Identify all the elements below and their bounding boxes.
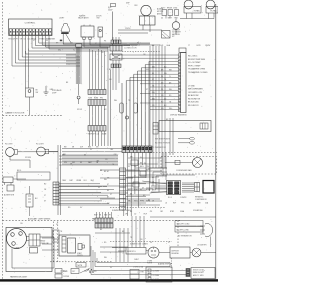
svg-text:LO SIDE HTR: LO SIDE HTR (197, 245, 207, 247)
svg-text:HY: HY (107, 171, 109, 173)
svg-text:HUF: HUF (144, 214, 147, 216)
svg-text:BK AUX SW: BK AUX SW (188, 94, 199, 97)
svg-text:CH: CH (134, 166, 136, 168)
svg-text:BK: BK (84, 154, 86, 156)
svg-text:YL: YL (169, 76, 171, 78)
svg-text:YL: YL (156, 184, 158, 186)
svg-text:VALVE ASSY: VALVE ASSY (78, 17, 90, 20)
svg-text:WR TEST POINTS: WR TEST POINTS (155, 138, 171, 140)
svg-text:RWL: RWL (88, 147, 91, 149)
svg-text:AUXILIARY LIGHT WIRING: AUXILIARY LIGHT WIRING (28, 217, 51, 220)
svg-text:LOW SIDE: LOW SIDE (172, 29, 180, 31)
svg-text:CU WIRE: CU WIRE (153, 271, 160, 273)
svg-text:1DVE: 1DVE (159, 45, 163, 47)
svg-text:BT: BT (107, 197, 109, 199)
svg-text:COMPRESSOR: COMPRESSOR (195, 199, 207, 201)
svg-text:DEFROST H: DEFROST H (127, 251, 136, 253)
svg-text:YN: YN (99, 215, 101, 217)
svg-text:WIRE RECEPT: WIRE RECEPT (193, 272, 204, 274)
svg-text:FZ THERMISTOR: FZ THERMISTOR (178, 236, 192, 238)
svg-text:GY +5V TEMP: GY +5V TEMP (188, 62, 201, 64)
svg-text:VT: VT (110, 194, 112, 196)
svg-text:SP4: SP4 (64, 162, 67, 164)
svg-text:VT: VT (44, 195, 46, 197)
svg-text:BU: BU (148, 199, 150, 201)
svg-text:DEFROST: DEFROST (172, 250, 180, 252)
svg-text:COMP: COMP (14, 248, 20, 250)
svg-text:LT GND: LT GND (188, 85, 195, 87)
svg-text:DISPLAY HARNESS: DISPLAY HARNESS (170, 114, 187, 117)
svg-text:VT: VT (33, 40, 35, 42)
svg-text:SUBZERO CKT 1 LINES: SUBZERO CKT 1 LINES (130, 243, 148, 245)
svg-text:DT: DT (107, 184, 109, 186)
svg-text:TN DAMPER OPEN: TN DAMPER OPEN (188, 68, 206, 71)
svg-text:SW: SW (97, 18, 100, 20)
svg-text:OR DMPR LOW: OR DMPR LOW (188, 92, 202, 94)
svg-text:RD TEST POINTS: RD TEST POINTS (155, 143, 171, 145)
svg-text:S: S (11, 235, 12, 237)
svg-text:GY: GY (44, 201, 46, 203)
svg-text:GY: GY (142, 187, 144, 189)
svg-text:BK: BK (107, 190, 109, 192)
svg-text:KIT: KIT (172, 36, 175, 38)
svg-text:WH LEFT CORD: WH LEFT CORD (177, 224, 191, 226)
svg-text:DU1: DU1 (84, 180, 87, 182)
svg-text:CONTROL: CONTROL (25, 22, 36, 24)
svg-text:FC LIGHT: FC LIGHT (36, 143, 44, 145)
svg-text:EK: EK (80, 162, 82, 164)
svg-text:VT: VT (168, 242, 170, 244)
svg-text:CU WIRE: CU WIRE (153, 279, 160, 281)
svg-text:CYBZ: CYBZ (173, 7, 177, 9)
svg-text:TN DAMPER CLOSED: TN DAMPER CLOSED (188, 71, 208, 74)
svg-text:LIGHT: LIGHT (59, 18, 65, 20)
svg-text:CU WIRE: CU WIRE (153, 275, 160, 277)
svg-text:VT: VT (56, 224, 58, 226)
svg-text:FZ DRN: FZ DRN (25, 157, 32, 159)
svg-text:AUGER MTR: AUGER MTR (4, 194, 15, 197)
svg-text:NLUF: NLUF (146, 190, 150, 192)
svg-text:ZPU: ZPU (146, 166, 149, 168)
svg-text:1P1: 1P1 (125, 214, 128, 216)
svg-text:RD +5VDC: RD +5VDC (188, 56, 198, 58)
svg-text:YT: YT (188, 45, 190, 47)
svg-text:U4: U4 (161, 17, 163, 19)
svg-text:12VDC: 12VDC (125, 28, 131, 30)
svg-text:TD THERMISTOR: TD THERMISTOR (152, 147, 167, 149)
svg-text:LT GRN: LT GRN (147, 261, 152, 263)
svg-text:PZ: PZ (128, 166, 130, 168)
svg-text:BK: BK (140, 162, 142, 164)
svg-text:DYMW: DYMW (50, 38, 56, 40)
svg-text:VT: VT (146, 89, 148, 91)
svg-text:FZ DR: FZ DR (77, 109, 83, 111)
svg-text:ER1: ER1 (9, 38, 12, 40)
svg-text:120V: 120V (134, 5, 138, 7)
svg-text:FC FAN: FC FAN (211, 9, 218, 12)
svg-text:CABINET / FZ DOOR: CABINET / FZ DOOR (5, 111, 25, 114)
svg-text:VT: VT (134, 175, 136, 177)
svg-text:HARNESS MC ASSY: HARNESS MC ASSY (10, 275, 28, 278)
svg-text:FZ FAN: FZ FAN (194, 9, 201, 12)
svg-text:RC-5: RC-5 (168, 197, 172, 199)
svg-text:HERMETIC: HERMETIC (195, 197, 204, 199)
svg-text:CLOSED DOOR: CLOSED DOOR (124, 48, 137, 50)
svg-text:FZ HTR: FZ HTR (147, 263, 152, 265)
svg-text:HPDW: HPDW (167, 7, 172, 9)
svg-text:YL: YL (73, 50, 75, 52)
svg-text:COPPER: COPPER (63, 276, 69, 278)
svg-text:BK SJB LED: BK SJB LED (188, 102, 199, 104)
svg-text:YL: YL (104, 89, 106, 91)
svg-text:LBU: LBU (96, 160, 99, 162)
svg-text:CONDENSER FAN: CONDENSER FAN (176, 169, 192, 172)
svg-text:FZ LIGHT: FZ LIGHT (5, 143, 13, 145)
svg-text:UCF: UCF (80, 147, 83, 149)
svg-text:RD SJB 12V: RD SJB 12V (188, 105, 199, 107)
svg-text:PEWW: PEWW (205, 45, 210, 47)
svg-text:WH DISPENSER: WH DISPENSER (188, 89, 203, 91)
svg-text:RE1L: RE1L (140, 166, 144, 168)
svg-text:PFZ: PFZ (100, 97, 103, 99)
svg-text:SUBZERO CKT 1 LINES: SUBZERO CKT 1 LINES (112, 210, 132, 212)
svg-text:YL: YL (117, 43, 119, 45)
svg-text:RD MONITOR: RD MONITOR (188, 98, 201, 100)
svg-text:HMV: HMV (94, 215, 97, 217)
svg-text:DU: DU (128, 190, 130, 192)
svg-text:WK: WK (107, 177, 109, 179)
svg-text:BR FRZ TEMP SEN: BR FRZ TEMP SEN (188, 59, 206, 61)
svg-text:PT: PT (109, 215, 111, 217)
svg-text:BK LEFT CORD: BK LEFT CORD (177, 230, 190, 232)
svg-text:EZZU: EZZU (197, 45, 201, 47)
svg-text:HZP: HZP (173, 203, 176, 205)
svg-text:KB: KB (42, 38, 44, 40)
svg-text:YNEV: YNEV (62, 180, 66, 182)
svg-text:Y-MELT: Y-MELT (134, 259, 139, 261)
svg-text:BK FL: BK FL (17, 170, 22, 172)
svg-text:VT: VT (95, 43, 97, 45)
svg-text:CKT: CKT (72, 271, 75, 273)
svg-text:120V: 120V (108, 9, 113, 11)
svg-text:COMPR: COMPR (180, 197, 187, 199)
svg-text:14BT: 14BT (69, 180, 73, 182)
